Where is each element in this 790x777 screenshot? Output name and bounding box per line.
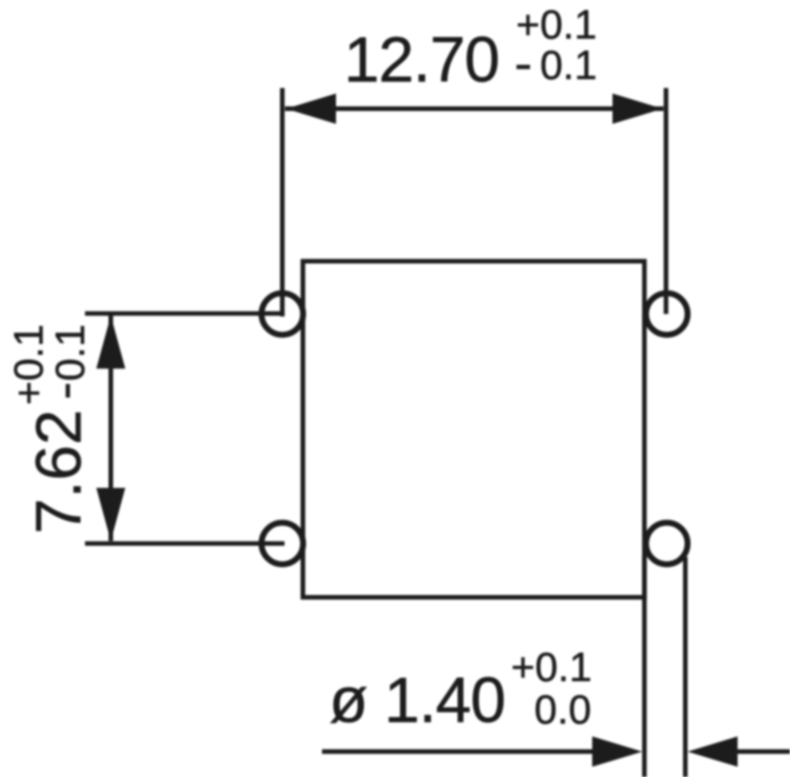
- svg-text:12.70: 12.70: [344, 24, 499, 96]
- svg-text:0.1: 0.1: [47, 324, 93, 381]
- extension line left (12.70 dim, from top-left hole up): [280, 88, 285, 317]
- hole bottom-left: [262, 523, 304, 565]
- svg-text:+0.1: +0.1: [5, 324, 51, 405]
- svg-text:7.62: 7.62: [23, 409, 95, 534]
- extension line right (12.70 dim, from top-right hole up): [664, 88, 669, 314]
- svg-text:0.0: 0.0: [534, 687, 591, 733]
- hole top-right: [646, 293, 688, 335]
- svg-text:ø 1.40: ø 1.40: [329, 664, 505, 736]
- extension line bottom (7.62 dim, from bottom-left hole to left): [85, 541, 285, 546]
- dimension line 12.70: [285, 106, 664, 111]
- dimension text 7.62 (rotated): [5, 324, 94, 534]
- minus dash of -0.1 (top dim): [517, 65, 531, 69]
- arrowhead right of 12.70 dimension: [613, 94, 663, 124]
- hole tangent line right (diameter callout): [683, 557, 688, 777]
- minus dash of -0.1 (left dim): [66, 384, 70, 398]
- arrowhead bottom of 7.62 dimension: [96, 488, 125, 541]
- arrowhead pointing left at right tangent line: [688, 736, 738, 766]
- hole bottom-right: [646, 523, 688, 565]
- arrowhead top of 7.62 dimension: [96, 316, 125, 369]
- dimension line 7.62: [109, 316, 114, 542]
- arrowhead left of 12.70 dimension: [286, 94, 336, 124]
- extension line top (7.62 dim, from top-left hole to left): [85, 311, 285, 316]
- hole tangent line left (diameter callout, collinear with square right edge): [642, 556, 647, 777]
- svg-text:+0.1: +0.1: [516, 2, 597, 48]
- hole top-left: [262, 293, 304, 335]
- dimension line right part (diameter 1.40): [736, 749, 790, 754]
- svg-text:+0.1: +0.1: [511, 644, 592, 690]
- svg-text:0.1: 0.1: [540, 42, 597, 88]
- component body outline (square): [303, 261, 645, 597]
- dimension line left part (diameter 1.40): [322, 749, 594, 754]
- arrowhead pointing right at left tangent line: [592, 736, 642, 766]
